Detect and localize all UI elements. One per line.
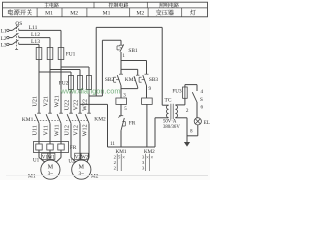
wire U12 segment [70, 123, 72, 152]
contactor KM1 main contacts [35, 114, 39, 123]
wire lamp return [197, 125, 199, 136]
svg-text:3~: 3~ [78, 171, 84, 177]
wire V12 segment [79, 123, 81, 152]
svg-text:U21: U21 [32, 96, 39, 107]
svg-text:L13: L13 [31, 39, 40, 45]
wire L11 [19, 29, 61, 31]
wire branch to KM1 aux [121, 68, 138, 70]
coil KM1 [116, 98, 127, 104]
tap wire to FU2-2 [50, 69, 80, 71]
tap wire to FU2-3 [61, 66, 89, 68]
terminal box W2 [81, 153, 88, 159]
terminal box V2 [75, 153, 81, 159]
svg-text:KM1: KM1 [125, 77, 137, 83]
svg-text:U11: U11 [32, 125, 39, 135]
svg-text:M2: M2 [136, 11, 144, 17]
svg-text:QS: QS [15, 21, 22, 27]
svg-text:L1: L1 [1, 29, 7, 35]
svg-text:FR: FR [70, 145, 77, 151]
svg-text:W2: W2 [81, 155, 89, 160]
svg-text:L12: L12 [31, 32, 40, 38]
svg-text:SB2: SB2 [105, 77, 115, 83]
ground symbol [184, 142, 190, 147]
motor M2 leads [70, 153, 72, 158]
wire V11 segment [49, 123, 51, 141]
svg-text:L2: L2 [1, 36, 7, 42]
svg-text:FR: FR [129, 121, 136, 127]
svg-text:M: M [48, 164, 54, 171]
pushbutton SB1 (NC stop) [120, 40, 122, 45]
terminal box W1 [48, 153, 55, 159]
tap wire to FU2-1 [39, 71, 71, 73]
table label lighting-circuit [159, 3, 179, 8]
pushbutton SB2 (NO start M1) [120, 61, 122, 75]
lamp EL [194, 118, 201, 125]
wire secondary ground leg [186, 118, 188, 142]
svg-text:S: S [200, 97, 203, 103]
wire U21 segment [38, 60, 40, 114]
transformer TC core [170, 104, 172, 119]
wire lighting feed [95, 27, 97, 96]
svg-text:SB1: SB1 [128, 48, 138, 54]
wire FU3 to switch [184, 85, 186, 87]
svg-text:FU1: FU1 [66, 52, 76, 58]
contactor KM2 main contacts [67, 114, 71, 123]
svg-text:M1: M1 [103, 11, 111, 17]
coil KM2 [142, 98, 153, 104]
wire control bottom rail (net 11) [108, 146, 156, 148]
fuse FU2-1 [69, 76, 74, 90]
bottom faint line [96, 174, 208, 176]
svg-text:M1: M1 [45, 11, 53, 17]
switch QS blade L1 [12, 26, 18, 30]
terminal box V1 [42, 153, 48, 159]
svg-text:W12: W12 [82, 124, 89, 136]
svg-text:×: × [122, 156, 125, 161]
wire W11 segment [60, 123, 62, 141]
motor M1 [41, 160, 60, 179]
svg-text:×: × [151, 156, 154, 161]
wire L13 [19, 43, 39, 45]
svg-text:L11: L11 [29, 25, 38, 31]
fuse FU1-2 [47, 48, 53, 60]
svg-text:FU3: FU3 [172, 89, 182, 95]
svg-text:U1: U1 [33, 157, 40, 163]
fuse FU2-3 [87, 76, 92, 90]
svg-text:U12: U12 [64, 125, 71, 136]
wire W22 segment [88, 90, 90, 114]
transformer TC primary winding [167, 105, 169, 117]
svg-text:V21: V21 [43, 96, 50, 107]
switch QS linkage (dashed) [16, 25, 18, 50]
svg-text:6: 6 [201, 105, 204, 111]
switch QS blade L2 [12, 33, 18, 37]
switch QS blade L3 [12, 40, 18, 44]
svg-text:TC: TC [165, 97, 172, 103]
svg-text:M2: M2 [91, 174, 99, 180]
svg-text:W1: W1 [48, 155, 56, 160]
wire secondary to FU3 [184, 98, 186, 105]
svg-text:11: 11 [110, 142, 115, 147]
svg-text:W11: W11 [54, 124, 61, 136]
svg-text:FU2: FU2 [59, 81, 69, 87]
svg-text:www.diangon.com: www.diangon.com [60, 87, 121, 96]
wire branch to SB3 [121, 60, 147, 62]
wire U22 segment [70, 90, 72, 114]
svg-text:KM2: KM2 [94, 117, 106, 123]
wire V21 segment [49, 60, 51, 114]
table label main-circuit [44, 3, 59, 8]
wire W21 segment [60, 60, 62, 114]
wire W12 segment [88, 123, 90, 152]
table label control-circuit [109, 3, 129, 8]
wire control feed tap [89, 95, 102, 97]
pushbutton SB3 (NO start M2) [145, 73, 149, 75]
thermal contact FR (NC) [119, 115, 123, 117]
svg-text:U22: U22 [64, 100, 71, 111]
table label transformer [156, 9, 174, 15]
wire TC primary return [154, 118, 156, 147]
svg-text:V22: V22 [73, 100, 80, 111]
wire V22 segment [79, 90, 81, 114]
motor M1 leads [38, 153, 40, 158]
svg-text:50V·A: 50V·A [163, 120, 177, 125]
contact KM1 auxiliary (self-hold) [136, 74, 139, 76]
transformer TC secondary winding [175, 105, 177, 117]
svg-text:2: 2 [186, 108, 189, 114]
wire control return [80, 103, 108, 105]
svg-text:4: 4 [201, 89, 204, 95]
svg-text:L3: L3 [1, 43, 7, 49]
thermal relay FR heaters [34, 142, 69, 153]
svg-text:M: M [79, 164, 85, 171]
svg-text:W21: W21 [54, 95, 61, 107]
svg-text:KM1: KM1 [22, 117, 34, 123]
svg-text:W22: W22 [82, 99, 89, 111]
svg-text:V12: V12 [73, 125, 80, 136]
svg-text:380/36V: 380/36V [163, 125, 180, 130]
switch S (lamp) [196, 85, 198, 91]
svg-text:M1: M1 [28, 173, 36, 179]
table label power-switch [8, 9, 32, 15]
fuse FU1-1 [36, 48, 42, 60]
wire L12 [19, 37, 50, 39]
table label lamp [190, 10, 196, 16]
wire U11 segment [38, 123, 40, 141]
svg-text:V11: V11 [43, 125, 50, 135]
motor M2 [72, 160, 91, 179]
svg-text:EL: EL [204, 120, 210, 126]
table header frame [3, 2, 208, 17]
svg-text:M2: M2 [70, 11, 78, 17]
fuse FU1-3 [58, 48, 64, 60]
svg-text:×: × [146, 156, 149, 161]
fuse FU2-2 [78, 76, 83, 90]
fuse FU3 [183, 87, 188, 98]
svg-text:3~: 3~ [48, 171, 54, 177]
svg-text:SB3: SB3 [149, 77, 159, 83]
